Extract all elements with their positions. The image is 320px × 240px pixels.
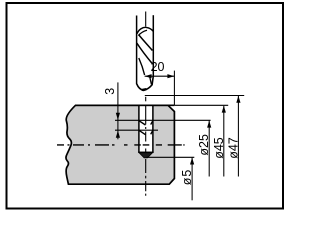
vertical centerline through hole	[145, 105, 147, 196]
dimension dia 5	[147, 157, 195, 200]
hole bottom cone	[139, 153, 153, 158]
svg-text:ø47: ø47	[226, 137, 240, 159]
hole in workpiece	[138, 105, 153, 153]
svg-text:3: 3	[103, 88, 117, 95]
drill axis top	[145, 12, 147, 27]
drill flute top loop	[137, 27, 153, 33]
dim line	[117, 82, 119, 139]
drill flute mid diagonal	[137, 43, 153, 64]
left arrow	[145, 74, 152, 78]
drill left edge	[136, 16, 138, 85]
block top edge (drawn across hole)	[76, 104, 175, 106]
svg-text:ø45: ø45	[212, 137, 226, 159]
extension line right	[173, 71, 175, 105]
drill tip outline	[137, 76, 154, 90]
arrow to upper line	[116, 113, 120, 120]
dimension dia 25	[197, 121, 211, 177]
dimension 3	[103, 82, 211, 139]
dimension 20	[145, 60, 175, 105]
extension line at cone tip level	[147, 156, 195, 158]
border frame	[7, 3, 284, 209]
extension line at drill tip level	[145, 95, 244, 97]
drill chisel edge	[142, 88, 147, 91]
drill flute lower diagonal	[139, 58, 145, 75]
drill tip position mark lower	[139, 131, 152, 135]
drill heel line	[149, 75, 151, 84]
extension line lower	[115, 129, 158, 131]
extension of block top edge	[174, 104, 228, 106]
drill flute upper diagonal	[139, 35, 153, 51]
horizontal centerline	[57, 144, 185, 146]
svg-text:20: 20	[151, 60, 165, 74]
extension line upper (also ext for dia25)	[115, 119, 211, 121]
vertical centerline dash below tip	[145, 97, 147, 102]
svg-text:ø25: ø25	[197, 134, 211, 156]
right arrow	[167, 74, 174, 78]
dim line	[145, 75, 175, 77]
drill flute top loop inner	[138, 30, 147, 35]
svg-text:ø5: ø5	[180, 169, 194, 186]
drill right edge	[152, 15, 154, 76]
drill tip position mark upper	[139, 121, 152, 125]
workpiece block	[66, 105, 174, 184]
arrow to lower line	[116, 131, 120, 138]
dimension dia 45	[174, 105, 228, 176]
drill	[137, 12, 154, 91]
dimension dia 47	[145, 96, 244, 177]
